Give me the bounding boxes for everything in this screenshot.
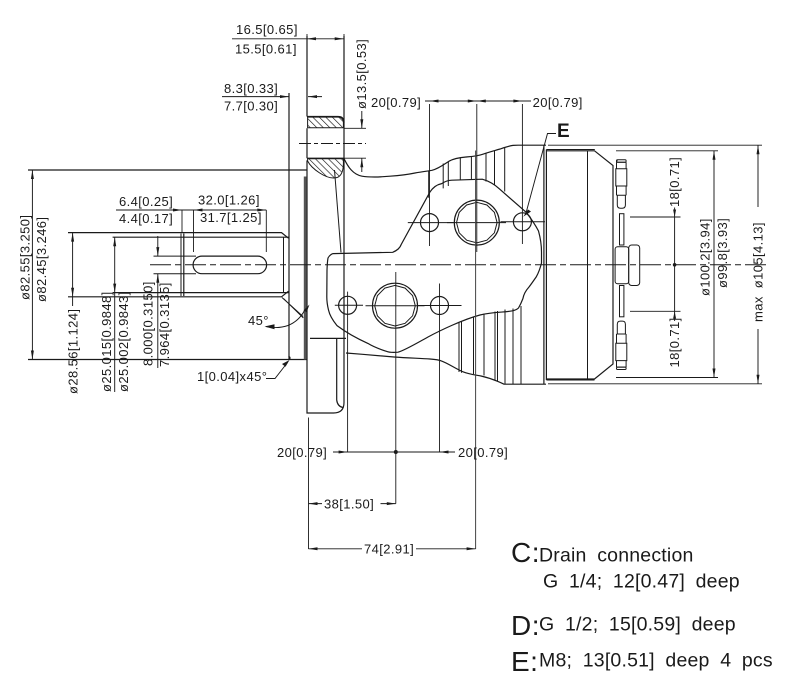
- svg-text:18[0.71]: 18[0.71]: [667, 317, 682, 367]
- pilot bottom chamfer jog: [289, 356, 291, 360]
- svg-text:8.000[0.3150]: 8.000[0.3150]: [141, 281, 156, 366]
- body upper ribs: [429, 147, 505, 198]
- keyway slot edge extension lines: [154, 255, 197, 257]
- arrows for 6.4 and 32.0: [173, 209, 266, 212]
- 1x45 leader: [266, 363, 288, 379]
- svg-text:ø82.55[3.250]: ø82.55[3.250]: [18, 215, 33, 300]
- end cap top and bottom edges: [546, 150, 594, 381]
- bolt head upper stack: [616, 160, 627, 208]
- bolt head lower stack: [616, 321, 627, 367]
- svg-text:15.5[0.61]: 15.5[0.61]: [235, 42, 297, 57]
- shaft dia 25 bottom edge: [113, 292, 289, 294]
- end cap face line: [587, 151, 589, 379]
- svg-text:8.3[0.33]: 8.3[0.33]: [224, 81, 278, 96]
- dia105 extension lines: [548, 145, 762, 384]
- svg-text:max ø105[4.13]: max ø105[4.13]: [751, 222, 766, 322]
- flange lower boss hatch with fillet tail: [308, 159, 344, 178]
- extension lines for keyway dims: [182, 210, 266, 252]
- dia100 extension lines: [616, 151, 718, 378]
- lower small hole M8 right: [431, 297, 449, 315]
- bolt upper stem: [620, 214, 624, 245]
- dim 18 lower: extension line and dim line: [630, 310, 681, 312]
- shaft end chamfer ring: [283, 237, 285, 292]
- flange bolt hole lower edge: [307, 157, 344, 159]
- dim 20/20 top: line and arrows: [425, 100, 531, 102]
- svg-text:32.0[1.26]: 32.0[1.26]: [198, 193, 260, 208]
- svg-text:6.4[0.25]: 6.4[0.25]: [119, 194, 173, 209]
- lower port crosshair: [366, 305, 425, 307]
- body bottom edge: [346, 353, 546, 384]
- svg-text:Drain connection: Drain connection: [539, 545, 694, 567]
- upper port crosshair: [447, 222, 506, 224]
- dim max dia105: broken line and arrows: [757, 145, 759, 384]
- lower small hole left crosshair: [335, 304, 363, 306]
- dim 16.5/15.5 flange: line and inside-out arrows: [232, 38, 344, 40]
- rear housing joint lines: [544, 145, 547, 384]
- port face plate outline: [327, 179, 542, 352]
- svg-text:45°: 45°: [248, 313, 269, 328]
- center boss outer: [629, 245, 640, 286]
- flange bolt hole centerline: [299, 143, 366, 145]
- svg-text:ø28.56[1.124]: ø28.56[1.124]: [66, 309, 81, 394]
- svg-text:1[0.04]x45°: 1[0.04]x45°: [197, 369, 267, 384]
- upper small hole right crosshair: [501, 221, 546, 223]
- dim 38: line with inside-out arrows: [309, 503, 396, 505]
- body top edge behind flange: [344, 145, 546, 177]
- svg-text:G 1/2; 15[0.59] deep: G 1/2; 15[0.59] deep: [539, 614, 736, 636]
- mounting flange outline: [307, 36, 344, 413]
- body lower contour block behind port face: [310, 338, 346, 407]
- dim dia13.5 bolt hole: vertical line and outside arrows: [361, 111, 363, 172]
- flange upper boss hatch: [308, 117, 344, 128]
- E leader: [526, 134, 556, 214]
- dim 18 upper: extension line and dim line: [630, 216, 681, 218]
- svg-text:E: E: [557, 121, 570, 142]
- pilot rear face gray band: [304, 177, 307, 360]
- dim dia82.55/82.45: dimension line with arrows: [31, 170, 33, 360]
- flange top edge: [307, 117, 344, 123]
- dim dia100.2/99.8: line and arrows: [713, 151, 715, 378]
- upper small hole left crosshair: [408, 222, 454, 224]
- dim dia25.015/25.002: line arrows divider: [114, 237, 116, 392]
- shaft step lines: [180, 234, 182, 297]
- flange face extension lines above: [307, 34, 344, 122]
- dim 8.000/7.964: arrows outside slot, divider below: [157, 236, 159, 368]
- svg-text:C:: C:: [511, 537, 540, 568]
- rear face silhouette and 74 extension line: [475, 151, 477, 550]
- svg-text:20[0.79]: 20[0.79]: [533, 95, 583, 110]
- lower port G: [373, 283, 418, 328]
- svg-text:ø100.2[3.94]: ø100.2[3.94]: [698, 218, 713, 296]
- center boss inner: [615, 247, 629, 284]
- svg-text:20[0.79]: 20[0.79]: [371, 95, 421, 110]
- svg-text:18[0.71]: 18[0.71]: [667, 157, 682, 207]
- dim 74: line with inside-out arrows: [309, 548, 476, 550]
- shaft dia 25 top edge: [113, 236, 289, 238]
- pilot bottom edge and dia82 bottom extension: [28, 359, 307, 361]
- svg-text:38[1.50]: 38[1.50]: [324, 497, 374, 512]
- dim 20/20 bottom: line, outside arrows, center dot: [333, 451, 455, 453]
- pilot top edge and dia82 top extension: [28, 169, 307, 171]
- svg-text:G 1/4; 12[0.47] deep: G 1/4; 12[0.47] deep: [543, 571, 740, 593]
- svg-text:20[0.79]: 20[0.79]: [277, 445, 327, 460]
- dim 20/20 top: extension lines: [430, 104, 523, 252]
- dia13.5 extension lines: [344, 128, 366, 158]
- lower port thread polygon: [375, 285, 416, 326]
- upper small hole M8 left: [421, 214, 439, 232]
- upper port G: [454, 200, 499, 245]
- svg-text:16.5[0.65]: 16.5[0.65]: [236, 22, 298, 37]
- dim 6.4/4.4 and 32.0/31.7: dimension line: [116, 209, 266, 211]
- svg-text:M8; 13[0.51] deep 4 pcs: M8; 13[0.51] deep 4 pcs: [539, 650, 773, 672]
- dim 8.3/7.7: line with outside arrows: [222, 96, 322, 98]
- body silhouette taper behind flange: [335, 170, 342, 252]
- pilot front face: [288, 93, 290, 360]
- svg-text:D:: D:: [511, 610, 540, 641]
- lower small hole M8 left: [339, 296, 357, 314]
- svg-text:4.4[0.17]: 4.4[0.17]: [119, 211, 173, 226]
- svg-text:ø25.002[0.9843]: ø25.002[0.9843]: [116, 291, 131, 392]
- shaft outer dia 28.56 top edge: [68, 233, 289, 239]
- shaft end chamfer 45 line: [282, 298, 303, 318]
- lower small hole right crosshair: [418, 305, 462, 307]
- svg-text:74[2.91]: 74[2.91]: [364, 542, 414, 557]
- shaft outer dia 28.56 bottom edge: [68, 291, 289, 297]
- svg-text:E:: E:: [511, 646, 538, 677]
- body lower ribs: [459, 306, 521, 384]
- svg-text:ø82.45[3.246]: ø82.45[3.246]: [34, 217, 49, 302]
- svg-text:31.7[1.25]: 31.7[1.25]: [200, 210, 262, 225]
- keyway slot: [193, 256, 267, 274]
- dim 20/20 bottom: extension lines: [309, 272, 440, 549]
- bolt lower stem: [620, 286, 624, 317]
- upper port thread polygon: [457, 202, 498, 243]
- svg-text:7.964[0.3135]: 7.964[0.3135]: [157, 282, 172, 367]
- svg-text:ø99.8[3.93]: ø99.8[3.93]: [715, 218, 730, 288]
- svg-text:20[0.79]: 20[0.79]: [458, 445, 508, 460]
- 45 leader arc and arrow: [266, 311, 305, 328]
- dim dia28.56: line and arrows: [72, 233, 74, 306]
- svg-text:7.7[0.30]: 7.7[0.30]: [224, 99, 278, 114]
- upper small hole M8 right: [513, 213, 531, 231]
- main centerline: [150, 264, 766, 266]
- svg-text:ø13.5[0.53]: ø13.5[0.53]: [354, 39, 369, 109]
- end cap outline: [546, 151, 613, 379]
- svg-text:ø25.015[0.9848]: ø25.015[0.9848]: [99, 291, 114, 392]
